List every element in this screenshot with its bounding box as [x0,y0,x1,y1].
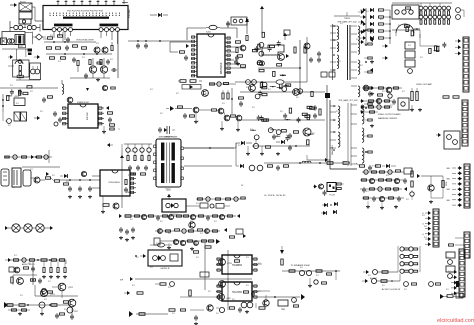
svg-text:TR602: TR602 [344,18,351,20]
flyback label top [337,18,357,24]
wire loop above U201 [187,28,237,40]
capacitor C111 [66,37,70,43]
arrow marker left of U201 [186,44,189,48]
smps row y216 wire [125,215,236,217]
arrow left y145 [107,143,113,147]
svg-text:R12: R12 [370,33,373,35]
svg-text:R12: R12 [156,243,159,245]
transformer T302 label [159,136,178,192]
vert sect res pair [222,90,229,99]
svg-text:AC-DET: AC-DET [370,277,378,280]
smps left caps [119,227,135,242]
wire y120 [240,119,325,121]
svg-text:Q703: Q703 [50,294,55,296]
transistor Q704 [219,281,226,288]
transformer T101 core [15,35,24,45]
jig connector pair [14,112,27,121]
cluster mid-bottom1 [155,282,174,287]
audio row3 parts [7,301,69,308]
wire left rail [10,21,40,32]
svg-text:V-HEIGHT: V-HEIGHT [164,137,172,139]
svg-text:R12: R12 [52,175,55,177]
IC U101 pin name text row [50,11,120,16]
vert x307 upper [304,37,310,82]
audio long route [35,285,78,297]
svg-text:R12: R12 [296,97,299,99]
vr cluster row4 [364,196,402,202]
flyback winding sec upper right [358,26,360,44]
svg-text:R12: R12 [286,135,289,137]
svg-text:R12: R12 [252,107,255,109]
circuit wires Q103/Q104 [70,58,110,82]
res R202 [246,36,248,41]
wire y92 [240,91,325,93]
svg-text:P01 P02 P03 P04 P05 P06 P07 P0: P01 P02 P03 P04 P05 P06 P07 P08 [67,11,103,13]
IC U703 audio amp [216,255,258,274]
line degauss coil L102 [27,25,40,29]
wires diode row [124,144,152,155]
svg-text:R12: R12 [258,291,261,293]
U303 label [241,185,335,197]
diode D201 [150,13,168,17]
flyback lower winding left 2 [338,132,340,147]
flyback winding primary mid [337,55,339,69]
CN603 labels [446,168,451,202]
audio row3 wire [5,304,70,306]
IC U301 label [108,182,131,194]
flyback lower winding left 1 [338,106,340,117]
svg-text:R12: R12 [366,11,369,13]
stack boxes x408 [405,42,415,73]
svg-text:R12: R12 [132,285,135,287]
grid side circles [456,8,464,20]
vr cluster row2 [362,178,408,184]
smps row y216 right [199,214,241,221]
svg-text:R12: R12 [214,207,217,209]
svg-text:KS88C4032: KS88C4032 [77,102,90,104]
transistor Q702 [58,283,74,291]
transformer T302 gap lines [167,143,170,184]
svg-text:Q703: Q703 [227,263,232,265]
opto U303 box [327,183,336,192]
IC U301 right pins [130,173,136,194]
parts right of U303 [337,183,344,190]
wire drop from U101 pins [54,32,118,44]
vr row2 wire [360,179,404,181]
svg-text:R12: R12 [340,23,343,25]
label YM-050 right of U101 [128,9,131,18]
IC U201 jungle DIP outline [197,34,225,77]
vr cluster row1 [364,168,412,174]
res R211 vert [304,47,306,53]
svg-text:R12: R12 [280,111,283,113]
resistor R111 [48,37,53,39]
svg-text:T302: T302 [165,190,171,192]
conn CN801 [459,249,465,297]
transistor Q707 [263,295,269,306]
wire x122 top [121,144,123,150]
svg-text:R12: R12 [316,275,319,277]
left edge caps x237 [235,48,240,66]
spk row parts [281,259,332,276]
frame box chopper [13,60,29,77]
arrow audio left low [4,302,8,308]
svg-text:R12: R12 [30,91,33,93]
IC U204 right pins [98,107,104,125]
svg-text:R12: R12 [446,257,449,259]
svg-text:R12: R12 [294,301,297,303]
vert sect low text [164,137,172,139]
svg-text:R12: R12 [408,45,411,47]
CN605 wires [449,238,465,246]
transistor Q103 [89,66,96,73]
arrows left video [382,44,388,60]
svg-text:R12: R12 [402,91,405,93]
vr texts [372,166,379,168]
IC U101 right bar (thick) [100,24,119,27]
chain y180 right [60,179,100,181]
vert sect parts right [210,82,237,86]
svg-text:R12: R12 [246,285,249,287]
cap C221 [42,97,46,103]
box REG U203 [14,96,25,106]
wire heater to conn [460,137,462,139]
audio wire y275 [13,274,37,276]
opto label [171,214,178,216]
svg-text:R12: R12 [160,221,163,223]
IC U101 internal bus bar (thick) [63,17,109,19]
vert sect row C [178,106,242,121]
wire row y42 [44,41,96,43]
svg-text:R12: R12 [200,233,203,235]
svg-text:R12: R12 [8,125,11,127]
svg-text:R12: R12 [150,267,153,269]
wire video bus [392,30,420,38]
svg-text:R12: R12 [382,285,385,287]
transistor Q102 [102,47,108,53]
svg-text:R12: R12 [420,57,423,59]
label box F601 [17,75,23,78]
res R204 [238,55,243,57]
svg-text:R12: R12 [168,233,171,235]
transformer T302 core bar right [172,143,175,184]
bottom mid parts2 [292,298,299,308]
bottom chain left [362,278,393,283]
arrow pair y57 [8,55,40,59]
smps upper right parts [198,197,246,201]
CN604 labels [422,213,424,236]
svg-text:R12: R12 [236,265,239,267]
bridge diamond D101 [32,34,46,40]
smps upper right wire [196,196,246,202]
res R301 [46,177,51,179]
IC U201 part number [221,62,223,74]
CRT conn arrows [455,39,461,55]
resistor R113 [47,47,52,49]
arrows into CN603 [452,166,462,207]
svg-text:R12: R12 [424,226,427,228]
flyback lower winding right 2 [362,148,364,163]
bottom chain right parts [404,282,441,287]
vert wires lower-left [16,49,40,80]
coil L201 [62,80,64,94]
transformer T301 [12,168,21,187]
res R604 vert [442,181,444,188]
wire bottom right [444,293,463,298]
svg-text:R12: R12 [196,243,199,245]
smps up arrow [167,194,171,199]
smps row y241 wire [160,240,215,242]
sec parts more [276,165,289,171]
svg-text:R12: R12 [24,311,27,313]
svg-text:R12: R12 [246,87,249,89]
sec text row [265,195,287,197]
diode cluster d-row2 [321,210,337,215]
spk row wire [282,270,340,280]
transformer T302 core bar left [161,143,164,184]
flyback lower winding right 1 [362,105,364,124]
wire y180 chain [31,178,54,181]
res R708 vert [189,290,191,296]
wire sec bus [252,145,310,147]
wire mains junction [25,32,48,45]
svg-text:R12: R12 [72,45,75,47]
resistor R120 [89,60,91,65]
flyback top wire [334,12,360,16]
svg-text:R12: R12 [398,25,401,27]
cap C205 [234,59,238,65]
cap C712 [194,315,198,325]
black mark near flyback [325,93,330,98]
cap C203 C204 hanging [128,41,191,49]
rectifier diode row D311-D314 [126,148,151,161]
staircase bus [262,45,284,55]
transistor Q402 [293,89,300,96]
tall res pair [411,88,418,101]
svg-text:R12: R12 [394,191,397,193]
svg-text:R12: R12 [406,199,409,201]
IC U704 audio amp [216,282,258,301]
transistor Q104 [100,66,107,73]
svg-text:TRF_SA98_TFT_K02: TRF_SA98_TFT_K02 [338,99,358,102]
audio gnds [18,308,44,316]
vert sect top boxes [178,80,202,83]
res R302 [55,180,60,182]
flyback label mid [338,99,358,102]
arrow into U702 [135,254,146,258]
flyback winding extra d [362,128,364,142]
res above right [204,246,214,251]
cluster right of U201 upper [252,32,280,56]
circles on y82 [246,80,257,85]
sif parts [244,291,256,297]
svg-text:R12: R12 [446,289,449,291]
wire U201 right to SMPS area [231,47,246,68]
svg-text:R12: R12 [222,103,225,105]
video amp text rows [378,113,401,120]
res R205 [241,65,246,67]
box R711 [278,300,288,311]
res R706 [235,260,240,262]
audio vert rail [13,262,34,285]
arrow right of U204 [106,106,109,110]
video amp row1 [362,85,402,98]
svg-text:R12: R12 [150,89,153,91]
cluster under grid [404,25,420,36]
transistor Q701 [17,278,24,285]
svg-text:R12: R12 [16,103,19,105]
video input ladder [360,8,391,44]
box R707 [200,272,209,277]
svg-text:AC DET / H-SYNC IN: AC DET / H-SYNC IN [382,288,401,291]
audio chain row1 parts [14,258,65,262]
res R324 [327,162,333,165]
transistor Q101 [94,47,100,53]
audio row1 wire [11,259,66,264]
supply stub top [245,18,249,34]
svg-text:R12: R12 [196,121,199,123]
cap bank C311 [128,165,148,171]
audio text AV IN [22,263,35,266]
svg-text:R12: R12 [424,237,427,239]
IC U204 micom outline [68,104,98,128]
watermark red [437,318,474,324]
flyback core lines [348,25,352,166]
right chain x320 [317,51,335,77]
small box near flyback top [284,30,290,35]
cluster right of U201 lower [257,60,286,76]
flyback pins left [333,25,335,151]
svg-text:R12: R12 [308,115,311,117]
vertical wire x262 [260,6,264,34]
bottom small row [440,294,453,299]
svg-text:R12: R12 [196,203,199,205]
svg-text:R12: R12 [380,19,383,21]
resistor R116 [82,47,87,49]
IC U201 right pins [225,37,231,74]
svg-text:R12: R12 [160,113,163,115]
svg-text:R12: R12 [128,175,131,177]
smps row y231 wire [155,228,227,232]
svg-text:R12: R12 [136,257,139,259]
osc above U702 [150,243,172,247]
wire y82 long [235,81,307,83]
diode D321 [236,141,252,145]
video amp row2 [360,98,396,105]
arrow x122 [120,155,124,158]
video text top [416,83,432,86]
resistor R114 [56,47,61,49]
res R710 [256,303,265,309]
cap C210 [309,57,313,63]
smps row y216 left [119,214,154,220]
wire into U301 left [92,176,100,188]
svg-text:R12: R12 [356,39,359,41]
cap C701 big [41,288,46,293]
capacitor C112 [65,45,69,51]
wire row y41 to U201 [128,40,191,42]
IC U101 tuner/IF block outline [43,6,128,30]
svg-text:R12: R12 [368,101,371,103]
IC U101 bottom pin circles [52,28,120,32]
transistor Q705 [218,294,231,301]
svg-text:R12: R12 [238,145,241,147]
frame box mains [2,32,25,45]
coil arc L601 [15,60,23,64]
vert sect low cluster [158,126,175,134]
arrow y293 left [124,291,143,295]
svg-text:R12: R12 [250,129,253,131]
arrow y174 [46,172,49,176]
video out box outline [392,5,419,19]
wire y174 [22,166,60,168]
vert sect row C wires [175,109,225,117]
svg-text:R12: R12 [246,257,249,259]
flyback right gnds [370,60,374,128]
Q701 bias parts [11,277,42,284]
svg-text:R12: R12 [205,93,208,95]
IF box U702 [148,250,182,266]
cap C201 [226,21,230,28]
vertical rail x118 [117,30,119,78]
wire y66 left [8,65,14,67]
wire Q604 circuit [417,174,443,204]
vert sect gnd drops [194,113,240,132]
bottom wires center [136,308,219,314]
line filter FL301 [1,169,9,186]
vert wire x327 [326,85,328,160]
video right res row [442,96,462,98]
CRT socket connector CN601 [463,37,469,92]
bottom chain wire [377,274,400,281]
box U202 small [0,0,1,1]
svg-text:R12: R12 [66,181,69,183]
wire vert x236 [235,143,237,166]
svg-text:R12: R12 [404,289,407,291]
svg-text:HORIZONTAL DRIVE: HORIZONTAL DRIVE [76,39,94,42]
deg coil arc [396,24,414,36]
svg-text:LA7555 IF: LA7555 IF [160,267,170,270]
gnd marks video [410,105,422,112]
vert rail x122 [121,150,123,208]
black diode D322 [276,140,285,144]
svg-text:R12: R12 [268,89,271,91]
flyback stubs left [330,26,336,148]
spk sub parts [308,278,327,288]
res R325 [343,162,349,165]
svg-text:R12: R12 [196,257,199,259]
transistor Q706 [207,305,213,311]
svg-text:B+ 125V B+ 15V B+ 8V: B+ 125V B+ 15V B+ 8V [265,195,287,197]
opto U302 box [162,199,186,212]
parts left of U201 [170,51,188,61]
sec parts y150 [288,145,297,151]
U702 label [160,267,170,270]
svg-text:VIDEO OUTPUT BOARD: VIDEO OUTPUT BOARD [378,113,401,116]
conn CN605 lower right [464,232,470,258]
svg-text:PC123: PC123 [329,195,335,197]
conn CN602 right edge [462,100,468,146]
box FL302 [23,170,31,186]
flyback winding extra c [338,118,340,128]
diode cluster d-row1 [322,202,338,207]
svg-text:R12: R12 [30,169,33,171]
svg-text:R12: R12 [312,133,315,135]
svg-text:FL101: FL101 [20,2,27,4]
res row right [443,96,459,98]
wire h y279 [120,277,252,282]
svg-text:R12: R12 [362,155,365,157]
